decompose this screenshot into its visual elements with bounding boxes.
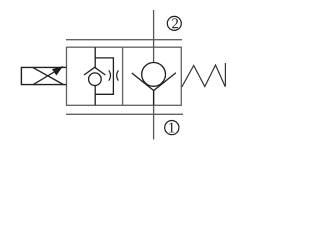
solenoid proportional arrow — [33, 67, 62, 85]
check valve seat (V) — [132, 73, 176, 91]
spring — [182, 63, 226, 87]
wire: below pilot poppet — [94, 86, 96, 106]
pilot check poppet (circle) — [89, 73, 102, 86]
wire: bottom connection line — [66, 113, 183, 115]
pilot check frame — [95, 58, 113, 94]
check valve CV poppet (circle) — [142, 63, 166, 87]
wire: port 1 vertical line — [153, 91, 155, 140]
valve body outline — [67, 47, 182, 105]
body chamber divider — [122, 47, 124, 105]
port 2 label — [167, 16, 181, 30]
wire: port 2 vertical line — [153, 10, 155, 63]
wire: top connection line — [66, 39, 182, 41]
orifice arcs — [109, 70, 119, 80]
port 1 label — [165, 121, 179, 135]
wire: pilot line into body — [94, 47, 96, 67]
wire: seat apex to body bottom — [153, 91, 155, 106]
pilot check seat (caret) — [84, 67, 105, 75]
solenoid slash — [33, 68, 63, 85]
solenoid S1 box — [21, 67, 66, 84]
